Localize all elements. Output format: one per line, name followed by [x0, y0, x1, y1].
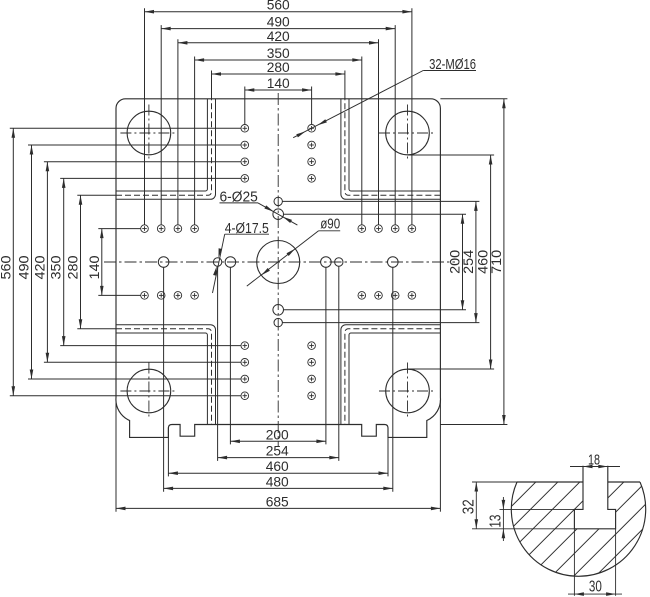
- 32 x M16 holes: [241, 125, 249, 133]
- extension lines: left chain rows: [10, 127, 241, 129]
- svg-text:420: 420: [31, 255, 47, 279]
- right dimension chain: [462, 214, 464, 310]
- T-slot outline: [574, 466, 615, 529]
- bottom dimension chain: [230, 440, 326, 442]
- main centerlines: [277, 93, 279, 446]
- svg-text:350: 350: [48, 255, 64, 279]
- svg-text:30: 30: [589, 578, 602, 595]
- extension lines: right chain: [284, 213, 466, 215]
- flat top surface: [517, 481, 583, 483]
- top dimension chain: [145, 11, 412, 13]
- svg-text:32: 32: [460, 499, 477, 514]
- svg-text:200: 200: [266, 426, 289, 442]
- center hole D90: [257, 241, 300, 284]
- svg-text:13: 13: [487, 515, 504, 528]
- svg-text:460: 460: [266, 458, 289, 474]
- tie bar hole centerlines: [120, 132, 177, 134]
- extension lines: bottom chain: [229, 268, 231, 445]
- detail dim 32: [472, 481, 517, 483]
- slot white fill: [574, 482, 615, 529]
- tie bar hole centerlines: [120, 390, 177, 392]
- svg-text:140: 140: [86, 255, 102, 279]
- svg-text:140: 140: [267, 75, 290, 91]
- detail outline: circle arc: [511, 482, 645, 576]
- svg-text:685: 685: [266, 493, 289, 509]
- svg-text:ø90: ø90: [320, 216, 340, 233]
- svg-text:254: 254: [266, 443, 289, 459]
- svg-text:560: 560: [267, 0, 290, 13]
- svg-text:280: 280: [267, 59, 290, 75]
- tie bar hole centerlines: [379, 390, 436, 392]
- left dimension chain: [12, 128, 14, 395]
- svg-text:710: 710: [488, 250, 504, 274]
- hatching: [376, 477, 650, 576]
- step contours around mold area (cross shape): [116, 99, 207, 191]
- 4 x D17.5 holes: [274, 197, 282, 205]
- svg-text:280: 280: [65, 255, 81, 279]
- svg-text:420: 420: [267, 28, 290, 44]
- svg-text:490: 490: [16, 255, 32, 279]
- detail dim 13: [500, 508, 575, 510]
- svg-text:560: 560: [0, 255, 13, 279]
- tie bar hole centerlines: [379, 132, 436, 134]
- extension lines: top chain columns down to left/right hole groups: [144, 8, 146, 225]
- main view: platen front outline: [116, 99, 441, 438]
- tie bar holes (4 corner circles): [127, 111, 171, 155]
- svg-text:480: 480: [266, 473, 289, 489]
- 6 x D25 holes: [273, 209, 284, 220]
- detail dim 30: [573, 529, 575, 596]
- svg-text:254: 254: [460, 250, 476, 274]
